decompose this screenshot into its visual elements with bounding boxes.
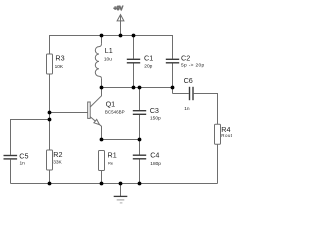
svg-text:BC546BP: BC546BP [105, 110, 125, 115]
svg-text:C1: C1 [144, 53, 153, 62]
resistor R1 [99, 150, 117, 183]
svg-text:+9V: +9V [114, 6, 124, 12]
resistor R2 [47, 150, 63, 184]
svg-text:150p: 150p [150, 116, 161, 122]
inductor L1 [95, 36, 113, 88]
wire C5 branch [11, 120, 50, 155]
ground [114, 184, 128, 203]
resistor R4 [215, 124, 233, 144]
wire top rail [50, 36, 173, 59]
capacitor C6 [184, 76, 193, 112]
svg-text:C4: C4 [150, 150, 159, 159]
capacitor C2 [166, 53, 205, 93]
junction C4 / ground rail [138, 182, 142, 186]
wire C6 to R4 [194, 94, 218, 125]
svg-text:1n: 1n [184, 106, 190, 112]
junction emitter / R1 top [100, 138, 104, 142]
junction L1 / top rail [100, 34, 104, 38]
svg-text:Re: Re [108, 160, 114, 165]
junction +9V / top rail [119, 34, 123, 38]
svg-text:R2: R2 [53, 150, 62, 159]
svg-text:10K: 10K [55, 64, 64, 70]
capacitor C5 [4, 151, 29, 183]
wire R3 bottom to base column [49, 74, 51, 150]
svg-text:L1: L1 [105, 46, 113, 55]
wire R4 bottom [217, 144, 219, 183]
junction C2 bottom / collector rail [171, 86, 175, 90]
junction R2 / ground rail [48, 182, 52, 186]
junction C3 top / collector rail [138, 86, 142, 90]
svg-text:33K: 33K [53, 160, 62, 166]
svg-text:C6: C6 [184, 76, 193, 85]
junction emitter row / C3-C4 column [138, 138, 142, 142]
svg-text:5p -> 20p: 5p -> 20p [181, 63, 205, 69]
resistor R3 [47, 53, 65, 74]
wire mid rail [102, 87, 173, 89]
svg-text:R1: R1 [108, 150, 117, 159]
capacitor C3 [133, 88, 161, 140]
wire bottom rail [11, 183, 218, 185]
junction base node / R3-R2 column [48, 111, 52, 115]
svg-text:Rout: Rout [221, 133, 232, 138]
transistor Q1 [88, 88, 125, 140]
wire C6 row [173, 93, 189, 95]
svg-text:C3: C3 [150, 106, 159, 115]
svg-text:10u: 10u [104, 57, 112, 63]
svg-text:20p: 20p [144, 63, 152, 69]
junction R1 / ground rail [100, 182, 104, 186]
svg-text:1n: 1n [20, 160, 26, 166]
svg-text:R3: R3 [55, 53, 64, 62]
svg-text:C2: C2 [181, 53, 190, 62]
junction ground symbol / ground rail [119, 182, 123, 186]
power +9V [114, 6, 124, 36]
wire emitter row [102, 139, 140, 141]
wire base [50, 112, 88, 114]
junction C1 bottom / collector rail [132, 86, 136, 90]
junction L1 bottom / collector node [100, 86, 104, 90]
svg-text:C5: C5 [19, 151, 28, 160]
svg-text:Q1: Q1 [106, 99, 116, 108]
svg-text:180p: 180p [150, 161, 161, 167]
capacitor C4 [133, 140, 162, 184]
junction C5 branch / R3-R2 column [48, 118, 52, 122]
capacitor C1 [127, 36, 153, 88]
junction C1 / top rail [132, 34, 136, 38]
